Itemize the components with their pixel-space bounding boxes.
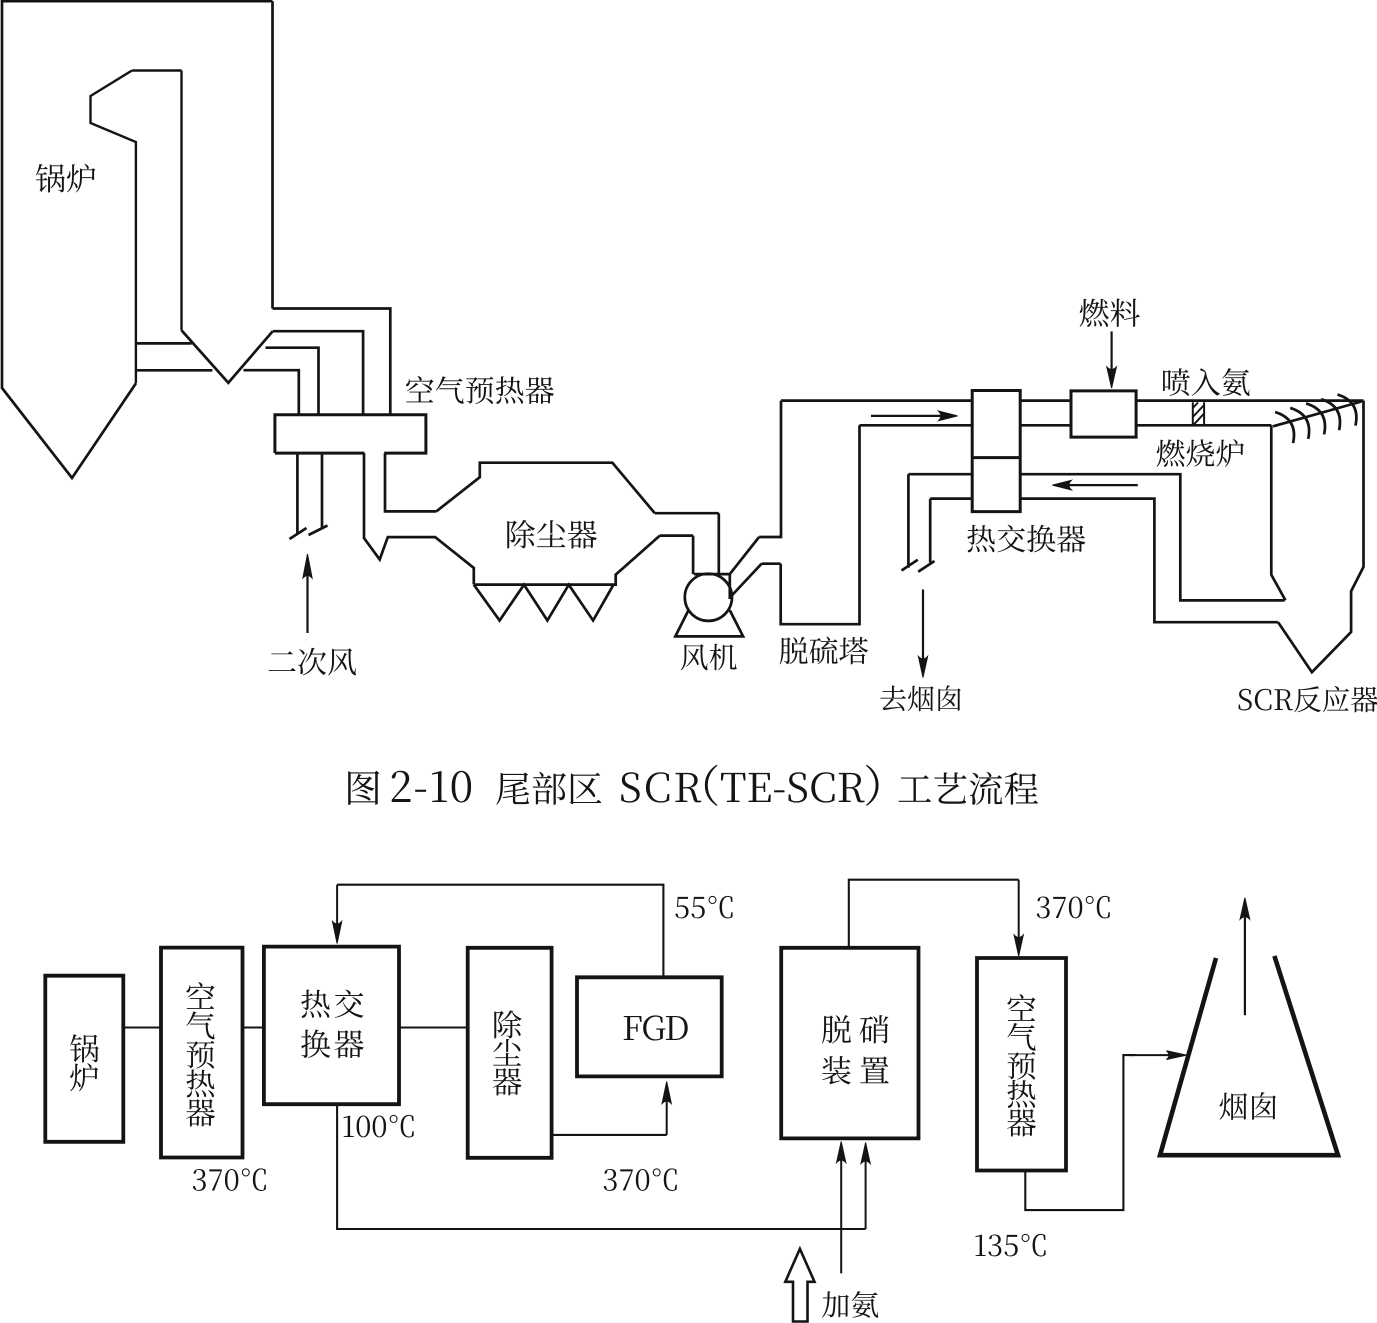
boiler 锅炉 outline	[2, 1, 273, 478]
SCR inlet vane 5	[1338, 395, 1357, 426]
fan inlet duct	[693, 513, 719, 574]
duct 4 to preheater	[244, 370, 299, 415]
fan 风机 circle	[685, 574, 732, 621]
label 空气预热器 air preheater	[406, 376, 554, 404]
label 370C left	[193, 1168, 266, 1191]
SCR inlet vane 2	[1290, 408, 1309, 439]
label bottom 空气预热器 1	[186, 982, 215, 1126]
arrow flue gas right	[871, 411, 958, 421]
boiler internal horizontal lines	[136, 343, 213, 370]
flue duct bottom line	[860, 424, 1272, 427]
label 燃烧炉 combustion furnace	[1157, 439, 1244, 467]
label 加氨 add ammonia	[822, 1291, 878, 1318]
line denox top	[849, 880, 1019, 948]
arrow fuel down	[1107, 331, 1117, 388]
label 脱硫塔 desulfurization tower	[780, 637, 868, 665]
label 装置	[822, 1056, 889, 1084]
pipe break marks	[290, 526, 328, 540]
arrow into denox left	[837, 1142, 846, 1274]
SCR inlet vane 1	[1275, 412, 1294, 443]
caption left paren	[705, 765, 718, 806]
label bottom 空气预热器 2	[1007, 994, 1036, 1136]
caption 工艺流程	[898, 772, 1038, 805]
label 二次风 secondary air	[269, 648, 357, 676]
connector HX-dust collector	[399, 1026, 468, 1028]
heat exchanger 热交换器 box	[972, 391, 1020, 512]
bottom air preheater 2 box	[977, 958, 1066, 1171]
duct 3 to preheater	[266, 348, 319, 415]
connector boiler-preheater	[123, 1026, 161, 1028]
caption 2-10	[392, 771, 471, 803]
line preheater2 to chimney	[1025, 1055, 1135, 1210]
caption TE-SCR	[721, 772, 865, 802]
arrow into chimney	[1130, 1051, 1187, 1060]
caption right paren	[866, 765, 879, 806]
line dust collector to FGD	[552, 1134, 667, 1136]
chimney branch pipes	[908, 474, 930, 568]
fan top chord	[694, 574, 730, 599]
label bottom 锅炉	[70, 1034, 99, 1091]
label bottom 热交	[301, 989, 363, 1017]
return duct lower line	[930, 499, 1278, 623]
line FGD top to HX top	[337, 885, 663, 978]
duct 2 to preheater	[273, 331, 363, 415]
caption 图	[348, 771, 379, 805]
denox 脱硝装置 box	[781, 948, 918, 1139]
fuel box 燃烧炉 burner	[1071, 391, 1136, 437]
label 脱硝	[822, 1015, 888, 1043]
line HX bottom to denox	[337, 1104, 866, 1229]
arrow 去烟囱 down	[918, 590, 927, 678]
open arrow 加氨	[785, 1249, 814, 1322]
label 370C mid	[604, 1168, 677, 1191]
chimney pipe break marks	[902, 560, 935, 572]
label bottom 换器	[301, 1029, 364, 1058]
label SCR反应器 SCR reactor	[1239, 686, 1377, 713]
arrow into FGD bottom	[662, 1082, 671, 1135]
air preheater 空气预热器 box	[275, 415, 426, 453]
chimney 烟囱	[1160, 956, 1338, 1155]
label 100C	[344, 1115, 414, 1138]
dust collector outlet duct	[655, 513, 719, 535]
SCR inlet vane 4	[1321, 399, 1340, 430]
label 喷入氨 ammonia injection	[1163, 368, 1250, 396]
duct upper wall to dust collector	[385, 453, 436, 511]
label bottom 除尘器	[493, 1010, 522, 1095]
boiler outlet V	[182, 330, 273, 383]
fan base	[675, 610, 743, 636]
connector preheater-HX	[243, 1026, 264, 1028]
label 除尘器 dust collector	[507, 520, 597, 549]
arrow into preheater2 top	[1014, 880, 1023, 956]
ammonia injector hatch	[1193, 402, 1204, 425]
arrow into denox right	[861, 1143, 870, 1230]
label 热交换器 heat exchanger	[967, 525, 1085, 553]
label 135C	[975, 1234, 1045, 1257]
SCR inlet diagonal	[1273, 402, 1361, 427]
flue duct top line	[781, 399, 1364, 402]
dust collector bottom right	[474, 536, 660, 585]
bottom air preheater 1 box	[161, 948, 243, 1158]
bottom dust collector box	[468, 948, 552, 1158]
fan outlet duct	[730, 537, 762, 598]
caption 尾部区	[496, 772, 601, 805]
label 锅炉 boiler	[36, 164, 96, 193]
dust collector 除尘器 top	[436, 463, 655, 514]
duct boiler top to preheater	[273, 309, 391, 415]
secondary air pipes	[297, 453, 322, 533]
dust collector hopper teeth	[474, 585, 614, 621]
SCR reactor body	[1271, 401, 1363, 673]
boiler internal furnace shape	[91, 71, 182, 384]
label 去烟囱 to chimney	[880, 685, 961, 711]
label 55C	[675, 896, 732, 919]
label 燃料 fuel	[1080, 299, 1140, 327]
return duct upper line	[908, 474, 1284, 600]
bottom heat exchanger box	[264, 947, 399, 1105]
label 风机 fan	[681, 644, 737, 671]
arrow 二次风 up	[303, 554, 312, 633]
FGD box	[577, 977, 722, 1076]
SCR inlet vane 3	[1306, 403, 1325, 434]
label 烟囱 chimney	[1220, 1092, 1277, 1120]
label 370C right	[1037, 896, 1110, 919]
arrow return flow left	[1052, 480, 1137, 490]
label FGD	[624, 1015, 688, 1040]
desulfurization tower 脱硫塔	[759, 401, 859, 625]
arrow chimney out	[1240, 898, 1250, 1016]
arrow into HX top	[333, 885, 342, 944]
bottom boiler 锅炉 box	[45, 976, 123, 1142]
caption SCR	[621, 772, 701, 802]
boiler right edge	[271, 1, 274, 308]
duct lower wall to dust collector	[364, 453, 474, 584]
